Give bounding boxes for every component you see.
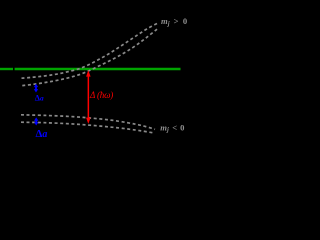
wire: green horizontal level line [0, 68, 13, 70]
blue arrow 2 (splitting of lower pair) [34, 117, 38, 125]
svg-text:Δa: Δa [35, 93, 44, 102]
node U2: lower dashed curve (lower of mj>0 pair) [22, 29, 157, 85]
svg-text:Δ (ħω): Δ (ħω) [89, 90, 113, 100]
node U1: upper dashed curve (upper of mj>0 pair) [22, 23, 159, 78]
svg-text:Δa: Δa [36, 128, 48, 140]
blue arrow 1 (splitting of upper pair) [34, 84, 38, 93]
node L1: upper dashed curve of mj<0 pair [21, 115, 155, 130]
node L2: lower dashed curve of mj<0 pair [21, 122, 153, 133]
red detuning arrow (double-headed, from green line to L1) [86, 70, 91, 124]
svg-text:mj< 0: mj< 0 [160, 122, 185, 133]
svg-text:mj> 0: mj> 0 [161, 16, 187, 27]
